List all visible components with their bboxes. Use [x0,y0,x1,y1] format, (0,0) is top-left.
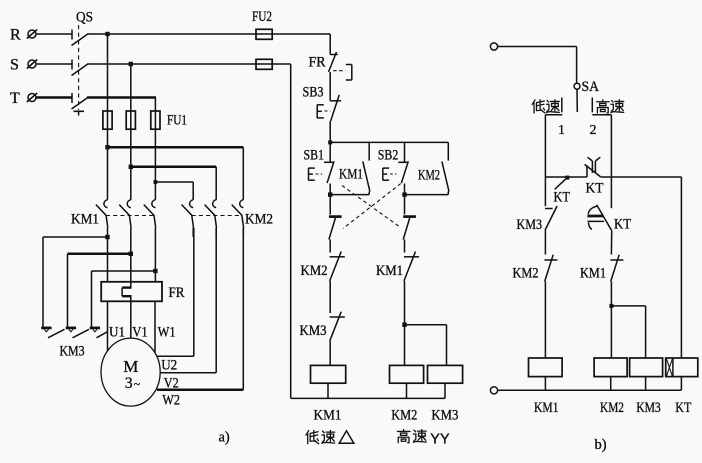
svg-text:KM2: KM2 [418,168,440,184]
svg-text:KM3: KM3 [636,400,661,416]
svg-text:KM3: KM3 [300,323,327,339]
svg-text:2: 2 [590,123,597,138]
svg-text:KM1: KM1 [71,212,99,228]
svg-text:YY: YY [430,431,449,448]
svg-text:~: ~ [134,379,140,391]
svg-text:KM2: KM2 [391,408,417,424]
svg-text:KM3: KM3 [517,217,543,233]
svg-text:V2: V2 [164,376,179,392]
svg-text:KM1: KM1 [314,408,342,424]
svg-text:QS: QS [76,10,93,26]
svg-text:M: M [123,357,138,376]
svg-text:1: 1 [558,123,565,138]
svg-text:FR: FR [169,285,185,301]
svg-text:KM1: KM1 [339,167,363,183]
svg-text:b): b) [595,437,607,453]
svg-text:T: T [10,90,20,107]
svg-text:KM2: KM2 [245,212,273,228]
svg-text:W1: W1 [158,325,176,341]
svg-text:KM2: KM2 [513,266,539,282]
svg-text:KM2: KM2 [301,263,328,279]
svg-text:KM1: KM1 [534,400,559,416]
svg-text:KT: KT [586,181,604,197]
svg-text:KT: KT [675,400,691,416]
svg-text:KT: KT [614,217,631,233]
svg-text:SB1: SB1 [304,148,325,164]
svg-text:KM3: KM3 [431,408,458,424]
svg-text:3: 3 [125,375,133,392]
svg-text:R: R [10,27,21,44]
svg-text:FU1: FU1 [167,113,187,129]
svg-text:a): a) [219,430,230,446]
svg-text:KM1: KM1 [580,266,606,282]
svg-text:SB3: SB3 [303,85,324,101]
svg-text:KT: KT [554,190,571,206]
svg-text:SA: SA [582,79,600,95]
svg-text:S: S [10,57,19,74]
svg-text:KM2: KM2 [600,400,624,416]
svg-text:FR: FR [309,55,326,71]
svg-text:U2: U2 [161,358,177,374]
svg-text:U1: U1 [109,325,125,341]
svg-text:SB2: SB2 [378,148,399,164]
svg-text:KM3: KM3 [60,344,85,360]
svg-text:KM1: KM1 [376,263,403,279]
svg-text:FU2: FU2 [252,9,272,25]
svg-text:W2: W2 [162,393,180,409]
